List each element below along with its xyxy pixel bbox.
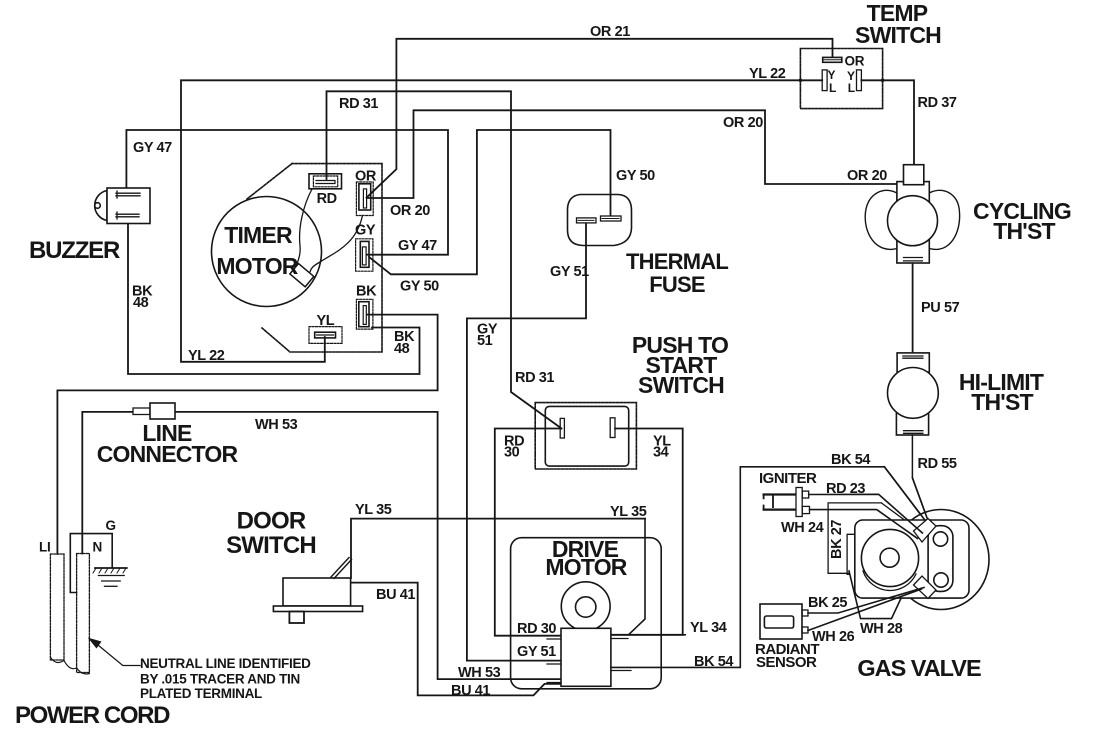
svg-text:BK 54: BK 54: [694, 654, 733, 670]
svg-text:WH 28: WH 28: [860, 621, 903, 637]
svg-text:48: 48: [133, 295, 149, 311]
wire RD23 igniter to gas valve: [809, 494, 923, 533]
svg-text:GY 51: GY 51: [550, 264, 589, 280]
burner circle: [863, 571, 916, 590]
cycling thermostat: [865, 165, 959, 263]
wire OR20 from timer OR terminal to cycling thermostat: [367, 110, 904, 198]
wire RD30 from push-to-start switch to drive motor: [495, 429, 561, 636]
timer terminal BK: [356, 299, 373, 329]
svg-text:N: N: [93, 540, 102, 555]
svg-text:GY 47: GY 47: [398, 238, 437, 254]
thermal fuse body: [568, 195, 632, 246]
junction dot temp switch left: [799, 79, 803, 83]
svg-text:OR: OR: [845, 54, 865, 69]
neutral line arrow: [88, 638, 140, 666]
svg-text:RD 37: RD 37: [918, 95, 957, 111]
wire GY50 from timer GY terminal to thermal fuse: [369, 130, 611, 274]
wire BK L1 feed from timer BK terminal to power cord LI blade: [57, 315, 437, 554]
svg-text:WH 24: WH 24: [781, 520, 824, 536]
svg-text:BK 27: BK 27: [829, 520, 845, 559]
svg-text:GY 50: GY 50: [616, 168, 655, 184]
gas valve funnel: [849, 571, 907, 619]
svg-text:WH 53: WH 53: [458, 665, 501, 681]
svg-text:RD 55: RD 55: [918, 456, 957, 472]
wire YL22 from timer YL terminal to temp switch: [181, 80, 822, 362]
svg-text:OR 21: OR 21: [590, 24, 630, 40]
wire WH24 igniter to gas valve: [810, 510, 918, 539]
wire BK25 radiant sensor to gas valve: [808, 588, 924, 614]
timer motor circle: [212, 197, 322, 307]
svg-text:FUSE: FUSE: [649, 272, 705, 297]
timer outline (dashed): [247, 164, 382, 352]
svg-text:48: 48: [394, 341, 410, 357]
wire PU57 from cycling thermostat to hi-limit thermostat: [912, 263, 914, 353]
gas valve assembly: [828, 467, 989, 619]
svg-text:YL 34: YL 34: [690, 620, 727, 636]
connector plate: [928, 526, 953, 592]
svg-text:PU 57: PU 57: [921, 300, 960, 316]
svg-text:MOTOR: MOTOR: [545, 554, 627, 580]
temp switch box (dashed): [800, 49, 882, 109]
timer terminal GY: [356, 239, 373, 271]
svg-text:L: L: [848, 81, 855, 95]
svg-text:TH'ST: TH'ST: [971, 389, 1033, 415]
power cord N junction box: [70, 534, 112, 593]
svg-text:GY 50: GY 50: [400, 279, 439, 295]
top connector wedge: [914, 519, 937, 543]
wire BK48 from timer BK terminal to buzzer: [128, 224, 420, 375]
power cord LI blade: [50, 554, 64, 660]
svg-text:SENSOR: SENSOR: [756, 654, 817, 671]
timer terminal RD: [309, 174, 342, 189]
svg-text:SWITCH: SWITCH: [855, 22, 941, 48]
svg-text:POWER CORD: POWER CORD: [15, 702, 170, 729]
svg-text:GY: GY: [355, 223, 376, 239]
svg-text:TH'ST: TH'ST: [993, 218, 1055, 244]
svg-text:TIMER: TIMER: [224, 222, 293, 248]
svg-text:WH 26: WH 26: [812, 629, 855, 645]
svg-text:BK 54: BK 54: [831, 452, 870, 468]
buzzer: [95, 188, 150, 224]
wire WH26 radiant sensor to gas valve: [808, 589, 922, 631]
wire BU41 from door switch to drive motor: [351, 583, 562, 696]
junction dot temp switch right: [881, 79, 885, 83]
wire OR21 from timer OR terminal to temp switch: [367, 39, 833, 198]
svg-text:IGNITER: IGNITER: [759, 470, 817, 487]
temp switch OR terminal bar: [823, 57, 842, 62]
line connector: [133, 403, 175, 419]
svg-text:BUZZER: BUZZER: [29, 237, 120, 264]
svg-text:BU 41: BU 41: [451, 683, 490, 699]
svg-text:BU 41: BU 41: [376, 587, 415, 603]
hi-limit thermostat: [888, 353, 939, 522]
svg-text:GAS VALVE: GAS VALVE: [857, 655, 981, 681]
svg-text:51: 51: [477, 333, 493, 349]
svg-text:YL: YL: [317, 313, 335, 329]
svg-text:OR: OR: [355, 169, 377, 185]
wire BK54 overlay diagonal into valve: [884, 467, 925, 520]
wire YL34 from push-to-start switch to drive motor: [610, 429, 683, 635]
drive motor body: [511, 519, 686, 689]
svg-text:YL 35: YL 35: [355, 502, 392, 518]
svg-text:OR 20: OR 20: [723, 115, 763, 131]
svg-text:NEUTRAL LINE IDENTIFIED: NEUTRAL LINE IDENTIFIED: [140, 656, 311, 671]
svg-text:Y: Y: [828, 68, 836, 82]
ground symbol: [93, 568, 127, 586]
igniter: [764, 488, 810, 517]
push-to-start switch: [535, 403, 636, 469]
bottom connector wedge: [914, 576, 937, 599]
svg-text:L: L: [829, 81, 836, 95]
svg-text:CONNECTOR: CONNECTOR: [97, 441, 239, 467]
wire RD55 overlay diagonal into valve: [912, 478, 928, 522]
svg-text:WH 53: WH 53: [255, 417, 298, 433]
power cord N blade: [77, 554, 90, 673]
wire RD37 from temp switch to cycling thermostat: [861, 80, 914, 164]
svg-text:34: 34: [653, 445, 669, 461]
door switch: [273, 558, 362, 624]
temp switch contact bars: [822, 70, 861, 91]
svg-text:YL 22: YL 22: [188, 348, 225, 364]
svg-text:PLATED TERMINAL: PLATED TERMINAL: [140, 686, 262, 701]
svg-text:YL 35: YL 35: [610, 504, 647, 520]
radiant sensor: [760, 604, 808, 639]
svg-text:THERMAL: THERMAL: [626, 249, 728, 274]
svg-text:RD 23: RD 23: [826, 481, 865, 497]
svg-text:30: 30: [504, 445, 520, 461]
svg-text:SWITCH: SWITCH: [638, 372, 724, 398]
wire BK54 drive motor to gas valve: [611, 467, 925, 668]
svg-text:RD 30: RD 30: [517, 621, 556, 637]
wire RD31 from timer RD terminal to push-to-start switch: [327, 91, 562, 428]
svg-text:OR 20: OR 20: [847, 168, 887, 184]
svg-text:RD: RD: [317, 191, 337, 207]
power cord torn end: [50, 657, 89, 674]
gas valve BK27 loop: [828, 503, 918, 573]
svg-text:OR 20: OR 20: [390, 203, 430, 219]
timer cam and internal wires: [290, 189, 363, 287]
svg-text:YL 22: YL 22: [749, 66, 786, 82]
svg-text:G: G: [106, 518, 116, 533]
wire YL35 from door switch to drive motor: [351, 519, 645, 578]
svg-text:RD 31: RD 31: [339, 96, 378, 112]
svg-text:BY .015 TRACER AND TIN: BY .015 TRACER AND TIN: [140, 672, 300, 687]
svg-text:SWITCH: SWITCH: [226, 532, 316, 559]
timer terminal YL: [309, 327, 342, 344]
svg-text:MOTOR: MOTOR: [216, 253, 298, 279]
wire GY47 from timer GY terminal to buzzer: [126, 130, 448, 255]
svg-text:DOOR: DOOR: [237, 508, 306, 535]
svg-text:BK 25: BK 25: [808, 595, 847, 611]
svg-text:LI: LI: [39, 540, 50, 555]
svg-text:BK: BK: [356, 284, 377, 300]
timer terminal OR: [356, 182, 373, 216]
wire WH53 from power cord N blade via line connector to drive motor: [82, 412, 561, 679]
svg-text:RD 31: RD 31: [515, 370, 554, 386]
wire GY51 from thermal fuse to drive motor: [467, 224, 586, 661]
svg-text:GY 51: GY 51: [517, 644, 556, 660]
svg-text:GY 47: GY 47: [133, 140, 172, 156]
